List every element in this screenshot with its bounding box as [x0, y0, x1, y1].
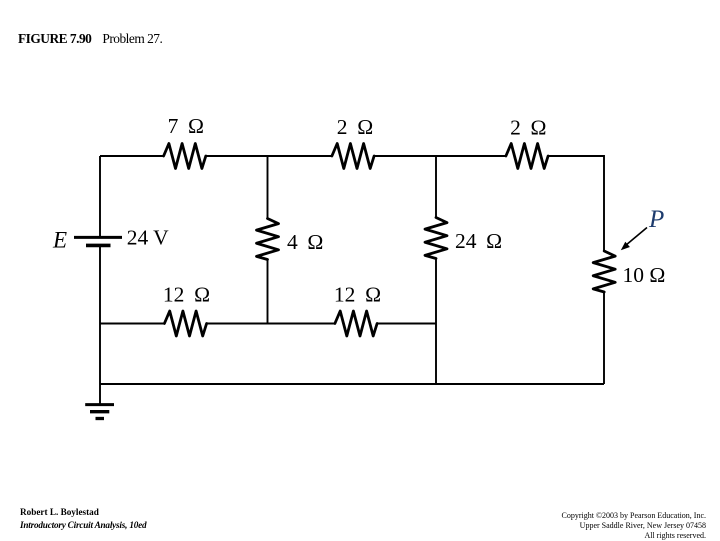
arrow from P to 10 ohm — [621, 228, 647, 251]
label 2 ohm (top middle) — [337, 115, 373, 139]
wire middle-left horizontal — [100, 323, 164, 325]
resistor 2 ohm (top right) — [506, 144, 548, 169]
wire bottom horizontal — [100, 383, 604, 385]
label 4 ohm — [287, 230, 323, 254]
footer right — [562, 511, 707, 541]
label 10 ohm — [623, 263, 666, 287]
wire left vertical upper (E top lead) — [99, 156, 101, 237]
svg-text:E: E — [52, 228, 67, 253]
label 7 ohm — [168, 114, 204, 138]
label 12 ohm (lower right) — [334, 283, 381, 307]
resistor 7 ohm (top left) — [164, 144, 206, 169]
svg-text:12 Ω: 12 Ω — [163, 283, 210, 307]
label 24 V — [127, 226, 169, 250]
wire left vertical lower (E bottom lead) — [99, 246, 101, 385]
svg-text:10 Ω: 10 Ω — [623, 263, 666, 287]
wire top between 7ohm and 2ohm (node to 4 ohm branch) — [206, 155, 332, 157]
resistor 4 ohm (middle vertical) — [257, 219, 279, 260]
svg-text:4 Ω: 4 Ω — [287, 230, 323, 254]
label 2 ohm (top right) — [510, 116, 546, 140]
resistor 10 ohm (right vertical) — [593, 251, 615, 292]
wire ground stem — [99, 384, 101, 404]
footer left — [20, 506, 146, 533]
resistor 24 ohm (middle-right vertical) — [425, 218, 447, 259]
resistor 12 ohm (lower right) — [335, 311, 377, 336]
wire top between 2ohm and right 2ohm (node to 24 ohm branch) — [374, 155, 506, 157]
svg-text:P: P — [648, 206, 664, 233]
wire middle between 12ohm resistors — [207, 323, 335, 325]
wire 24ohm branch lower — [435, 259, 437, 385]
resistor 12 ohm (lower left) — [164, 311, 206, 336]
resistor 2 ohm (top middle) — [332, 144, 374, 169]
voltage source E battery plates — [74, 237, 122, 245]
svg-text:2 Ω: 2 Ω — [337, 115, 373, 139]
svg-text:2 Ω: 2 Ω — [510, 116, 546, 140]
ground — [85, 405, 114, 419]
wire top-right corner — [548, 156, 604, 251]
wire middle-right horizontal to 24ohm branch — [377, 323, 436, 325]
figure caption — [18, 31, 162, 47]
svg-text:24 V: 24 V — [127, 226, 169, 250]
label P — [648, 206, 664, 233]
label 12 ohm (lower left) — [163, 283, 210, 307]
svg-text:12 Ω: 12 Ω — [334, 283, 381, 307]
svg-text:7 Ω: 7 Ω — [168, 114, 204, 138]
label 24 ohm — [455, 229, 502, 253]
wire 4ohm branch lower — [267, 260, 269, 324]
wire 4ohm branch upper — [267, 156, 269, 219]
svg-text:24 Ω: 24 Ω — [455, 229, 502, 253]
wire top-left horizontal — [100, 155, 164, 157]
label E — [52, 228, 67, 253]
wire right vertical lower — [603, 292, 605, 384]
wire 24ohm branch upper — [435, 156, 437, 218]
